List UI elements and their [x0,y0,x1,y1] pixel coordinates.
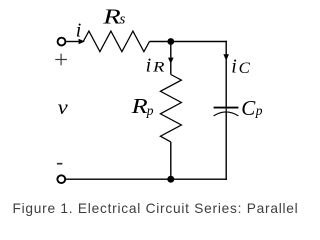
node A junction dot [167,38,174,45]
caption [0,200,307,218]
label iR [146,54,166,76]
terminal bottom-left (-) [57,175,65,183]
current arrow i [79,39,85,45]
node B junction dot [167,176,174,183]
svg-text:C: C [239,58,251,77]
svg-text:s: s [120,11,126,27]
capacitor C_p curved plate [214,112,239,116]
label Rp [130,95,153,118]
capacitor C_p top plate [214,107,239,109]
wire top-left to arrow [66,41,80,43]
svg-text:i: i [146,54,152,76]
svg-text:R: R [130,95,148,118]
current arrow iC [223,54,229,60]
svg-text:v: v [58,96,69,119]
svg-text:R: R [152,58,165,75]
label v [58,96,69,119]
resistor R_p [160,75,181,142]
resistor R_s [83,31,149,52]
wire resistor to node A [150,41,171,43]
capacitor C_p wire stub between plates [225,108,227,112]
svg-text:p: p [146,103,154,118]
wire capacitor down to bottom-right corner [225,112,227,180]
svg-text:i: i [76,19,82,41]
svg-text:R: R [102,6,121,29]
wire Rp to node B [170,142,172,179]
svg-text:p: p [255,103,263,118]
bottom wire [65,178,227,180]
terminal top-left (+) [58,38,66,46]
svg-text:i: i [231,55,237,77]
wire node A to top-right corner [171,41,227,43]
svg-text:C: C [241,96,256,120]
current arrow iR [168,58,174,64]
label iC [231,55,251,77]
wire top-right corner down [225,41,227,107]
plus sign [55,54,67,66]
minus sign [57,163,63,165]
wire node A down to resistor Rp [170,42,172,75]
label Cp [241,96,262,120]
label Rs [102,6,125,29]
